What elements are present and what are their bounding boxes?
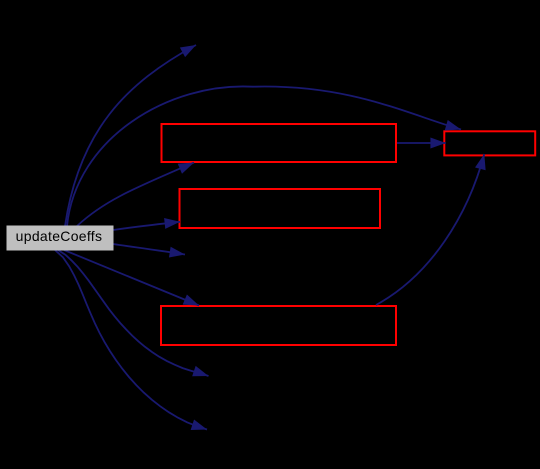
edge updateCoeffs -> hidden node right [113,244,185,255]
edge updateCoeffs -> node D (long top curve) [67,86,461,226]
node B (red box middle) [180,189,381,228]
svg-text:updateCoeffs: updateCoeffs [16,228,103,244]
node D (red box right) [444,131,535,155]
edge node A -> node D [397,142,446,144]
node A (red box top) [162,124,397,162]
edge updateCoeffs -> hidden node lower [58,250,209,376]
edge updateCoeffs -> node B [113,222,180,230]
node C (red box lower) [161,306,396,345]
node updateCoeffs (gray box) [7,226,113,250]
edge updateCoeffs -> hidden node top [65,45,196,226]
edge updateCoeffs -> node C [64,250,199,306]
edge updateCoeffs -> hidden node bottom [55,250,207,430]
edge node C -> node D [376,154,484,305]
edge updateCoeffs -> node A [77,163,194,226]
